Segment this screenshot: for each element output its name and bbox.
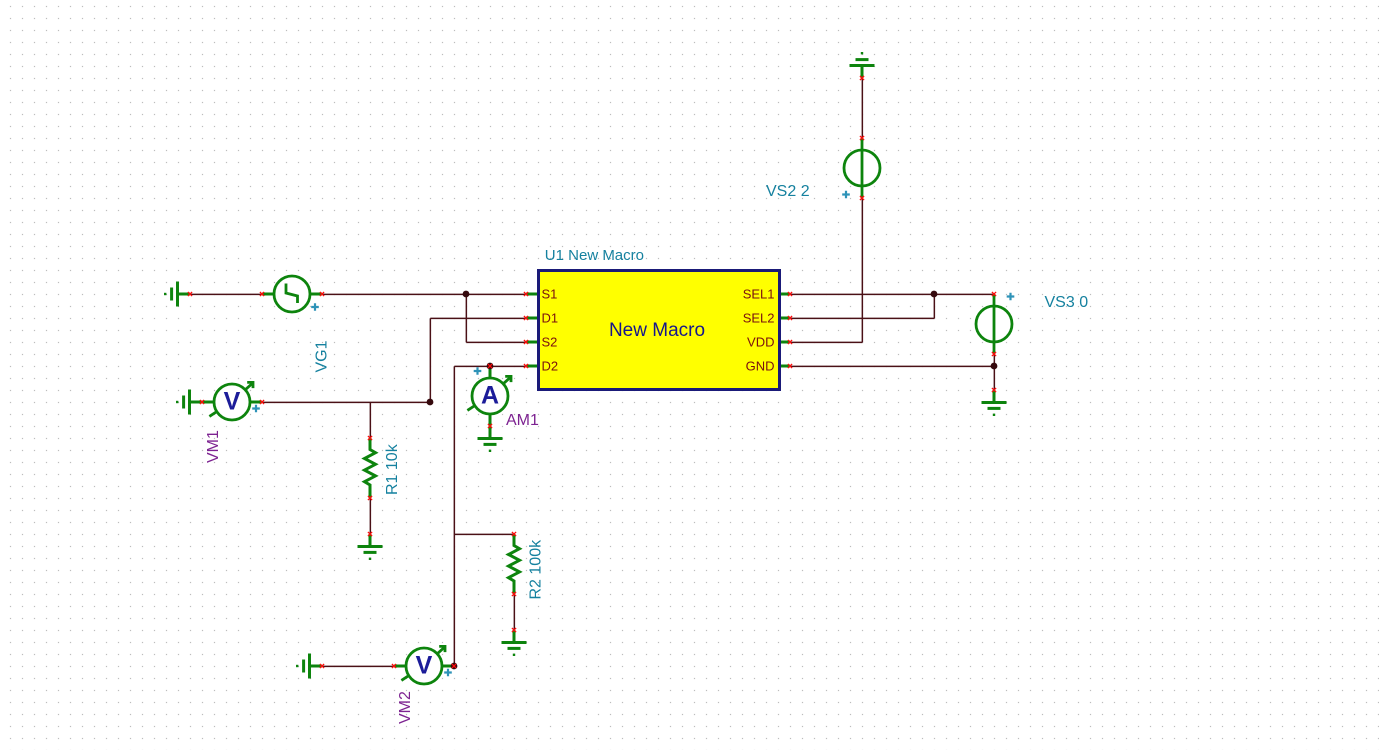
wire: VG1 to U1 pin S1 bbox=[322, 293, 526, 295]
pin stub VM2 left bbox=[394, 665, 406, 668]
svg-text:SEL1: SEL1 bbox=[743, 287, 775, 302]
pin stub SEL2 bbox=[780, 317, 790, 320]
svg-text:S1: S1 bbox=[542, 287, 558, 302]
pin marker VS3 top bbox=[992, 292, 996, 296]
pin marker VM2 left bbox=[392, 664, 396, 668]
pin marker VS2 top bbox=[860, 136, 864, 140]
pin stub VM1 left bbox=[202, 401, 214, 404]
wire: R1 to ground bbox=[369, 498, 371, 534]
wire: D1 down to VM1 net bbox=[429, 318, 431, 402]
pin marker GND bbox=[788, 364, 792, 368]
macro block U1 bbox=[539, 271, 780, 390]
wire: U1 pin VDD rightward bbox=[790, 341, 862, 343]
ground at VM2 bbox=[296, 654, 322, 679]
pin marker SEL2 bbox=[788, 316, 792, 320]
pin marker D1 bbox=[524, 316, 528, 320]
wire: VM1 to D1 node bbox=[262, 401, 430, 403]
voltmeter VM1 bbox=[209, 382, 253, 420]
svg-text:GND: GND bbox=[746, 359, 775, 374]
plus sign of VS2 bbox=[842, 191, 850, 199]
wire: S1 node down bbox=[465, 294, 467, 342]
wire: U1 pin GND to VS3 node bbox=[790, 365, 994, 367]
svg-text:D1: D1 bbox=[542, 311, 559, 326]
plus sign of VG1 bbox=[311, 303, 319, 311]
svg-text:V: V bbox=[224, 388, 241, 416]
pin stub VDD bbox=[780, 341, 790, 344]
wire: U1 pin D2 to AM1 node bbox=[490, 365, 526, 367]
pin marker R1 top bbox=[368, 436, 372, 440]
plus sign of VM2 bbox=[444, 669, 452, 677]
wire: ground to VG1 bbox=[190, 293, 262, 295]
pin stub VG1 left bbox=[262, 293, 274, 296]
pin stub VM2 right bbox=[442, 665, 454, 668]
pin stub GND bbox=[780, 365, 790, 368]
svg-text:U1 New Macro: U1 New Macro bbox=[545, 247, 644, 264]
pin marker VS3 ground bbox=[992, 388, 996, 392]
svg-text:V: V bbox=[416, 652, 433, 680]
pin marker R1 ground bbox=[368, 532, 372, 536]
svg-text:New Macro: New Macro bbox=[609, 320, 705, 341]
junction: S1/S2 node bbox=[463, 291, 470, 298]
pin marker VG1 right bbox=[320, 292, 324, 296]
wire: vertical run to VM2 bbox=[453, 366, 455, 666]
pin marker VS2 bottom bbox=[860, 196, 864, 200]
pin stub S2 bbox=[526, 341, 538, 344]
svg-text:VDD: VDD bbox=[747, 335, 774, 350]
wire: R2 to ground bbox=[513, 594, 515, 630]
wire: VS2 to top ground bbox=[861, 78, 863, 138]
svg-text:R2 100k: R2 100k bbox=[528, 539, 545, 600]
pin stub AM1 bottom bbox=[489, 414, 492, 426]
pin marker R1 bottom bbox=[368, 496, 372, 500]
ammeter AM1 bbox=[467, 376, 511, 414]
voltmeter VM2 bbox=[401, 646, 445, 684]
pin stub D1 bbox=[526, 317, 538, 320]
pin stub AM1 top bbox=[489, 366, 492, 378]
svg-text:VM2: VM2 bbox=[397, 691, 414, 724]
wire: U1 pin SEL1 to VS3 bbox=[790, 293, 994, 295]
pin marker SEL1 bbox=[788, 292, 792, 296]
ground below R2 bbox=[502, 630, 527, 656]
pin marker R2 ground bbox=[512, 628, 516, 632]
pin marker VM1 left bbox=[200, 400, 204, 404]
pin marker VM1 right bbox=[260, 400, 264, 404]
wire: U1 pin SEL2 rightward bbox=[790, 317, 934, 319]
pin marker R2 top bbox=[512, 532, 516, 536]
ground below AM1 bbox=[478, 426, 503, 452]
pin marker VM2 right bbox=[452, 664, 456, 668]
svg-text:VG1: VG1 bbox=[314, 340, 331, 372]
voltage generator VG1 bbox=[274, 276, 310, 312]
wire: VS3 bottom to GND net bbox=[993, 354, 995, 366]
ground above VS2 bbox=[850, 52, 875, 78]
wire: AM1 node leftward bbox=[454, 365, 490, 367]
pin stub D2 bbox=[526, 365, 538, 368]
pin marker VG1 left bbox=[260, 292, 264, 296]
pin marker ground-VG1 bbox=[188, 292, 192, 296]
pin marker VDD bbox=[788, 340, 792, 344]
pin stub S1 bbox=[526, 293, 538, 296]
ground below VS3 bbox=[982, 390, 1007, 416]
wire: drop to R1 bbox=[369, 402, 371, 438]
resistor R1 bbox=[365, 438, 376, 498]
junction: VM2 node bbox=[451, 663, 458, 670]
svg-text:A: A bbox=[481, 382, 499, 410]
plus sign of VS3 bbox=[1007, 293, 1015, 301]
junction: GND/VS3 node bbox=[991, 363, 998, 370]
resistor R2 bbox=[509, 534, 520, 594]
pin stub VG1 right bbox=[310, 293, 322, 296]
svg-text:SEL2: SEL2 bbox=[743, 311, 775, 326]
wire: VDD up to VS2 bbox=[861, 198, 863, 342]
svg-text:AM1: AM1 bbox=[506, 412, 539, 429]
wire: ground to VM2 bbox=[322, 665, 394, 667]
plus sign of VM1 bbox=[252, 405, 260, 413]
ground below R1 bbox=[358, 534, 383, 560]
plus sign of AM1 bbox=[474, 367, 482, 375]
wire: U1 pin D1 leftward bbox=[430, 317, 526, 319]
pin marker R2 bottom bbox=[512, 592, 516, 596]
svg-text:VS2 2: VS2 2 bbox=[766, 183, 810, 200]
ground at VG1 input bbox=[164, 282, 190, 307]
voltage source VS3 bbox=[976, 294, 1012, 354]
pin marker D2 bbox=[524, 364, 528, 368]
svg-text:S2: S2 bbox=[542, 335, 558, 350]
pin marker AM1 bottom bbox=[488, 424, 492, 428]
ground at VM1 bbox=[176, 390, 202, 415]
svg-text:R1 10k: R1 10k bbox=[384, 443, 401, 495]
junction: SEL1/SEL2 node bbox=[931, 291, 938, 298]
wire: to U1 pin S2 bbox=[466, 341, 526, 343]
pin marker AM1 top bbox=[488, 364, 492, 368]
pin marker VM2 ground bbox=[320, 664, 324, 668]
pin stub SEL1 bbox=[780, 293, 790, 296]
svg-text:D2: D2 bbox=[542, 359, 559, 374]
pin stub VM1 right bbox=[250, 401, 262, 404]
svg-text:VS3 0: VS3 0 bbox=[1045, 294, 1089, 311]
pin marker S2 bbox=[524, 340, 528, 344]
junction: D1/VM1/R1 node bbox=[427, 399, 434, 406]
voltage source VS2 bbox=[844, 138, 880, 198]
pin marker VS3 bottom bbox=[992, 352, 996, 356]
junction: D2/AM1 node bbox=[487, 363, 494, 370]
wire: SEL2 up to SEL1 net bbox=[933, 294, 935, 318]
wire: branch to R2 bbox=[454, 533, 514, 535]
pin marker S1 bbox=[524, 292, 528, 296]
svg-text:VM1: VM1 bbox=[205, 430, 222, 463]
pin marker VS2 ground bbox=[860, 76, 864, 80]
wire: GND net to ground symbol bbox=[993, 366, 995, 390]
